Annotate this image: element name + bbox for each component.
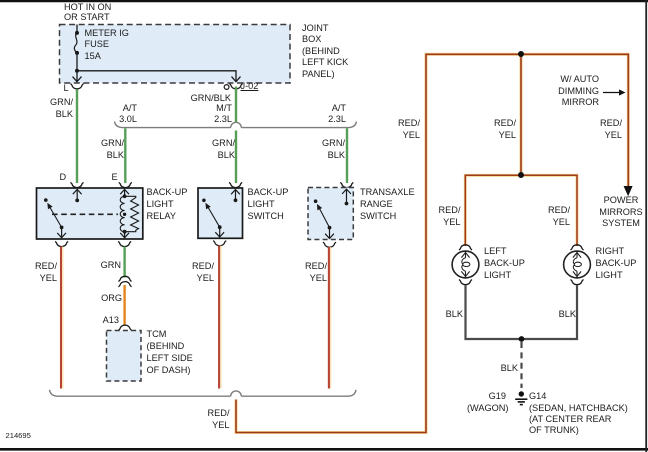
wire BLK lamp returns xyxy=(466,285,578,339)
label RED/YEL left lamp xyxy=(428,204,461,228)
label RED/YEL right col2 xyxy=(483,117,516,141)
junction node top right xyxy=(518,51,524,57)
wire GRN/BLK branch A/T 2.3L xyxy=(346,128,348,183)
label LEFT BACK-UP LIGHT xyxy=(484,245,525,281)
connector cup above right back-up light xyxy=(570,245,583,250)
back-up light switch contacts xyxy=(202,199,222,230)
wire RED/YEL trunk run to right side xyxy=(236,54,628,432)
frame right border xyxy=(645,0,647,452)
transaxle range switch contacts xyxy=(314,199,332,229)
connector cup E xyxy=(119,183,132,188)
relay coil xyxy=(120,194,138,233)
wire ORG xyxy=(123,285,125,326)
label RIGHT BACK-UP LIGHT xyxy=(596,245,637,281)
fuse METER IG 15A xyxy=(74,25,79,71)
connector cup J-02 xyxy=(229,84,242,89)
label BLK ground xyxy=(485,363,518,375)
label G14 xyxy=(529,391,546,403)
connector cup above transaxle range switch xyxy=(340,183,353,188)
label BACK-UP LIGHT SWITCH xyxy=(248,186,289,222)
label BACK-UP LIGHT RELAY xyxy=(147,186,188,222)
label ORG xyxy=(89,293,122,305)
connector cup L xyxy=(70,84,83,89)
TCM box xyxy=(107,331,142,382)
connector ring J-02 xyxy=(224,85,229,90)
label GRN/BLK branch 1 xyxy=(91,137,124,161)
label A13 xyxy=(86,315,119,327)
junction dot below fuse xyxy=(75,69,79,73)
wire RED/YEL from relay xyxy=(61,247,63,389)
label RED/YEL right lamp xyxy=(537,204,570,228)
connector cup A13 xyxy=(118,325,131,330)
label GRN/BLK branch 2 xyxy=(202,137,235,161)
label RED/YEL col2 xyxy=(181,260,214,284)
label RED/YEL col1 xyxy=(24,260,57,284)
wire RED/YEL from back-up light switch xyxy=(219,246,221,389)
frame top border xyxy=(0,0,648,2)
label RED/YEL right col1 xyxy=(387,117,420,141)
wire: bus inside joint box xyxy=(77,71,236,76)
connector cup below transaxle range switch xyxy=(323,242,336,247)
label BLK right xyxy=(543,309,576,321)
splice bracket bottom (merge) xyxy=(50,390,357,396)
arrow to power mirrors system xyxy=(624,186,633,196)
terminal arrow down to J-02 xyxy=(232,76,241,82)
connector cup above left back-up light xyxy=(459,245,472,250)
connector cup below back-up light switch xyxy=(213,241,226,246)
label GRN/BLK branch 3 xyxy=(312,137,345,161)
left back-up light bulb xyxy=(452,251,479,278)
diagram number xyxy=(6,430,31,442)
wire RED/YEL center drop xyxy=(520,54,523,175)
transaxle range switch box xyxy=(308,188,353,240)
label (WAGON) xyxy=(445,403,509,415)
arrow w/ auto dimming mirror xyxy=(603,89,626,95)
wire GRN/BLK from L xyxy=(76,89,78,183)
label TCM (BEHIND LEFT SIDE OF DASH) xyxy=(147,328,193,376)
relay bottom-left terminal arrow xyxy=(57,229,66,238)
relay bottom-right terminal arrow xyxy=(120,232,129,238)
label POWER MIRRORS SYSTEM xyxy=(591,195,648,230)
relay terminal D arrow xyxy=(73,189,82,202)
label GRN xyxy=(88,260,121,272)
splice bracket (transmission options) xyxy=(115,122,357,128)
label RED/YEL bottom xyxy=(197,408,230,431)
back-up light switch box xyxy=(198,188,243,238)
label terminal L xyxy=(64,83,69,95)
connector cup below relay right xyxy=(118,242,131,247)
right back-up light bulb xyxy=(564,251,591,278)
wire RED/YEL lamp feeds xyxy=(465,175,577,246)
ground symbol G19/G14 xyxy=(515,391,527,404)
label GRN/BLK at J-02 xyxy=(150,93,231,105)
label W/ AUTO DIMMING MIRROR xyxy=(540,74,599,109)
connector cup below left back-up light xyxy=(459,280,472,285)
transaxle range switch top terminal arrow xyxy=(342,189,351,205)
label A/T 3.0L xyxy=(98,103,137,126)
junction node lamp feed xyxy=(518,172,524,178)
label G14 location xyxy=(529,403,628,437)
label BLK left xyxy=(430,309,463,321)
back-up light relay box xyxy=(37,188,143,239)
connector cup above back-up light switch xyxy=(229,183,242,188)
label METER IG FUSE 15A xyxy=(85,28,129,62)
wire GRN from relay xyxy=(123,247,125,278)
wire RED/YEL from transaxle range switch xyxy=(329,247,331,389)
wire BLK to ground (dashed) xyxy=(520,342,522,388)
label RED/YEL right col3 xyxy=(589,117,622,141)
label terminal D xyxy=(60,172,67,184)
connector cup below relay left xyxy=(55,242,68,247)
terminal arrow down to L xyxy=(73,71,82,82)
connector cup D xyxy=(70,183,83,188)
junction node ground bus xyxy=(519,336,525,342)
connector cup below right back-up light xyxy=(570,280,583,285)
label A/T 2.3L xyxy=(307,103,346,126)
label M/T 2.3L xyxy=(193,103,232,126)
joint box J/B xyxy=(60,25,291,84)
label JOINT BOX (BEHIND LEFT KICK PANEL) xyxy=(302,23,348,81)
label terminal E xyxy=(112,172,118,184)
label G19 xyxy=(473,391,506,403)
relay terminal E arrow xyxy=(120,189,129,194)
back-up light switch top terminal arrow xyxy=(231,190,240,203)
label TRANSAXLE RANGE SWITCH xyxy=(360,186,415,222)
label GRN/BLK left xyxy=(40,96,73,120)
inline connector GRN to ORG xyxy=(118,276,131,286)
frame bottom border xyxy=(0,448,648,451)
label J-02 xyxy=(241,81,259,93)
back-up light switch bottom terminal arrow xyxy=(215,229,224,237)
wire GRN/BLK from J-02 xyxy=(235,87,237,184)
transaxle range switch bottom terminal arrow xyxy=(325,230,334,239)
label HOT IN ON OR START xyxy=(64,3,111,22)
label RED/YEL col3 xyxy=(294,260,327,284)
relay switch xyxy=(44,198,63,229)
relay coil dashed actuation line xyxy=(52,213,118,215)
wire GRN/BLK branch A/T 3.0L xyxy=(124,128,126,183)
